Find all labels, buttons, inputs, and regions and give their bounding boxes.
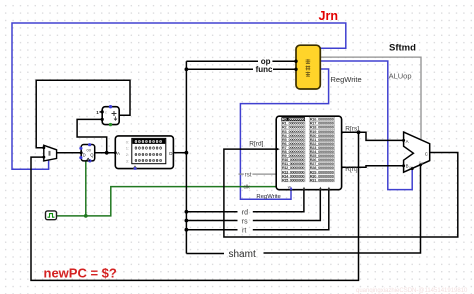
svg-text:D: D — [83, 152, 86, 157]
svg-text:rd: rd — [242, 210, 248, 217]
svg-text:2:: 2: — [126, 152, 129, 157]
svg-text:R[rd]: R[rd] — [249, 141, 263, 148]
svg-text:rs: rs — [242, 218, 248, 225]
wire rst to register file — [252, 173, 276, 175]
wire clock net: clock to register file clk input — [86, 187, 277, 216]
svg-text:R[rt]: R[rt] — [345, 166, 357, 173]
wire PC+1 loop: adder output to mux input 0 — [36, 80, 130, 148]
wire op field to controller — [186, 60, 295, 62]
register file — [276, 116, 345, 190]
svg-text:rt: rt — [242, 228, 246, 235]
svg-text:A: A — [406, 139, 409, 144]
mux PC-source multiplexer — [42, 145, 56, 161]
svg-text:quanqingxiazhieCSDN-@114514191: quanqingxiazhieCSDN-@1145141919810 — [356, 288, 468, 294]
wire RegWrite net: controller to register file write-enable — [240, 69, 328, 199]
svg-text:A: A — [117, 151, 120, 156]
wire rd field to register file — [186, 190, 304, 212]
register file contents rows — [281, 117, 334, 183]
wire rs field to register file — [186, 190, 320, 221]
svg-text:1:: 1: — [126, 146, 129, 151]
ALU — [402, 132, 430, 172]
wire R[rt] output to ALU input B — [342, 166, 404, 168]
svg-text:func: func — [256, 65, 273, 74]
svg-text:B: B — [406, 164, 409, 169]
wire ROM data output — [173, 152, 186, 154]
wire Sftmd net (floating): controller to ALU top — [320, 57, 421, 139]
svg-text:R[rs]: R[rs] — [345, 126, 359, 133]
wire Jrn net: controller Jrn output to PC mux select — [12, 23, 346, 169]
svg-text:c: c — [105, 111, 107, 115]
junction rd tee — [185, 210, 189, 214]
junction PC out to adder loop — [105, 151, 109, 155]
svg-text:C: C — [425, 152, 428, 157]
svg-text:RegWrite: RegWrite — [256, 194, 281, 200]
svg-text:newPC = $?: newPC = $? — [44, 266, 117, 281]
wire PC feedback to adder input B — [77, 119, 107, 152]
wire rt field to register file — [186, 190, 328, 230]
svg-text:00000000: 00000000 — [135, 146, 163, 152]
svg-text:R31_00000000: R31_00000000 — [310, 177, 334, 182]
junction rs tee — [185, 219, 189, 223]
junction instruction at ROM output — [185, 151, 189, 155]
svg-text:clk: clk — [244, 185, 251, 191]
wire ALU result loop back to register file W input R[rd] — [224, 149, 458, 237]
vertical CJK-style label strokes — [306, 59, 311, 76]
junction rt tee — [185, 228, 189, 232]
constant 1 at adder input A — [96, 110, 101, 115]
svg-text:Sftmd: Sftmd — [389, 43, 416, 54]
svg-text:D: D — [169, 151, 172, 156]
wire PC register Q output to instruction ROM address — [95, 152, 116, 154]
wire instruction bus vertical — [185, 61, 187, 253]
wire rst stub — [239, 173, 244, 175]
ROM contents display — [132, 138, 166, 163]
wire shamt field to ALU shift-amount pin — [186, 165, 420, 253]
register PC — [79, 143, 94, 162]
clock source — [46, 211, 57, 220]
junction func tee — [185, 67, 189, 71]
wire clock net: clock to PC register clock pin — [57, 162, 86, 216]
svg-text:3:: 3: — [126, 158, 129, 163]
svg-text:0:: 0: — [126, 139, 129, 144]
ROM instruction memory — [114, 136, 174, 170]
adder PC+1 — [101, 105, 120, 126]
svg-text:Jrn: Jrn — [319, 9, 338, 23]
junction R[rs] to newPC — [357, 130, 361, 134]
wire R[rs] output to ALU input A — [342, 132, 404, 140]
svg-text:00000000: 00000000 — [135, 158, 163, 164]
svg-text:00000000: 00000000 — [135, 139, 163, 145]
wire newPC net: R[rs] down and around to mux input 1 — [31, 132, 359, 280]
register file pins — [276, 148, 279, 151]
ROM sel pin — [133, 166, 137, 169]
wire mux output to PC register D input — [57, 152, 81, 154]
svg-text:ALUop: ALUop — [389, 71, 412, 80]
svg-text:00000000: 00000000 — [135, 152, 163, 158]
svg-text:shamt: shamt — [229, 249, 256, 260]
wire ALUop net: controller to ALU op pin — [320, 61, 412, 190]
svg-text:R15_00000000: R15_00000000 — [282, 177, 305, 182]
svg-text:RegWrite: RegWrite — [331, 75, 362, 84]
wire func field to controller — [186, 68, 295, 70]
svg-text:rst: rst — [245, 172, 252, 179]
junction clock net tee — [84, 214, 88, 218]
control unit (yellow subcircuit) — [294, 45, 320, 89]
svg-text:1: 1 — [96, 110, 99, 115]
